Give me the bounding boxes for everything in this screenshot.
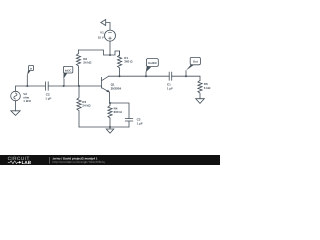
ground (R6) [196, 99, 205, 104]
node divider junction [78, 85, 80, 87]
node flag-InDC junction [63, 85, 65, 87]
svg-text:1 kHz: 1 kHz [23, 99, 31, 103]
node emitter junction [109, 102, 111, 104]
node OutDC junction [145, 75, 147, 77]
resistor R2 [76, 50, 80, 86]
footer logo arrow [19, 161, 22, 164]
resistor R3 [77, 86, 81, 127]
svg-text:15 V: 15 V [98, 36, 104, 40]
source V2 [11, 91, 21, 101]
wire flag OutDC stem [145, 72, 147, 76]
wire base rail [48, 85, 101, 87]
svg-text:V1: V1 [100, 31, 104, 35]
ground (V2) [11, 111, 20, 116]
footer bar [0, 155, 220, 165]
svg-text:In: In [30, 68, 32, 71]
transistor Q1 [102, 76, 110, 103]
capacitor C3 [125, 119, 132, 127]
svg-text:600 Ω: 600 Ω [114, 110, 122, 114]
node In flag junction [26, 85, 28, 87]
wire flag Out stem [185, 71, 187, 76]
flag Out pointer [186, 65, 194, 71]
svg-text:24 kΩ: 24 kΩ [82, 104, 90, 108]
wire collector rail [109, 75, 170, 77]
flag In pointer [27, 70, 31, 75]
svg-text:2N3904: 2N3904 [111, 87, 122, 91]
svg-text:R2: R2 [83, 57, 87, 61]
svg-text:C2: C2 [46, 93, 50, 97]
svg-text:http://circuitlab.com/cxngb7h2: http://circuitlab.com/cxngb7h2sh39f52q [53, 160, 105, 164]
svg-text:sine: sine [23, 96, 29, 100]
supply flag V+ arrow [101, 20, 110, 31]
flag OutDC pointer [146, 66, 151, 72]
svg-text:Out: Out [193, 60, 198, 63]
resistor R4 [108, 103, 112, 127]
svg-text:InDC: InDC [65, 69, 72, 72]
wire flag In stem [26, 75, 28, 86]
capacitor C2 [45, 82, 48, 90]
svg-text:5 kΩ: 5 kΩ [204, 86, 211, 90]
resistor R6 [198, 80, 202, 98]
footer logo resistor zigzag [8, 161, 19, 164]
node R1-collector junction [119, 75, 121, 77]
capacitor C1 [169, 72, 172, 80]
svg-text:R3: R3 [82, 100, 86, 104]
wire flag InDC stem [63, 79, 65, 86]
wire V1 bottom to top rail [109, 41, 111, 55]
wire V2 to C2 [16, 86, 46, 91]
wire emitter to C3 branch [110, 103, 129, 119]
svg-text:C3: C3 [137, 118, 141, 122]
resistor R1 [118, 51, 122, 76]
svg-text:V2: V2 [23, 92, 27, 96]
footer separator [49, 157, 51, 164]
svg-text:OutDC: OutDC [148, 62, 157, 65]
wire bottom rail [79, 126, 129, 128]
wire V2 to ground [15, 101, 17, 111]
flag InDC pointer [63, 73, 67, 79]
svg-text:1 µF: 1 µF [137, 122, 143, 126]
svg-text:C1: C1 [167, 83, 171, 87]
flag In box [29, 65, 34, 70]
flag Out box [190, 57, 200, 64]
svg-text:LAB: LAB [22, 160, 32, 165]
svg-text:24 kΩ: 24 kΩ [83, 61, 91, 65]
wire top rail [79, 50, 120, 56]
node emitter-bottom junction [109, 126, 111, 128]
node top rail junction [109, 54, 111, 56]
node Out junction [185, 75, 187, 77]
svg-text:R1: R1 [124, 56, 128, 60]
svg-text:R6: R6 [204, 82, 208, 86]
flag InDC box [63, 66, 72, 73]
wire C1 to R6 [172, 76, 200, 80]
svg-text:360 Ω: 360 Ω [124, 60, 132, 64]
ground (emitter) [106, 127, 114, 133]
svg-text:1 µF: 1 µF [167, 87, 173, 91]
svg-text:R4: R4 [114, 107, 118, 111]
svg-text:Q1: Q1 [111, 83, 115, 87]
svg-text:1 µF: 1 µF [45, 97, 51, 101]
flag OutDC box [146, 59, 158, 67]
voltage source V1 [105, 30, 116, 41]
